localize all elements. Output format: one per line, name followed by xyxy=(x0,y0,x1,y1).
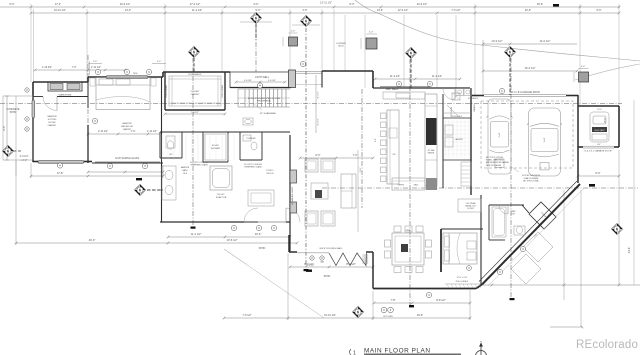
svg-text:9'-0": 9'-0" xyxy=(375,138,377,142)
svg-text:12'x8' SLIDING GLASS: 12'x8' SLIDING GLASS xyxy=(115,157,139,160)
svg-text:LIGHT WELL: LIGHT WELL xyxy=(255,76,270,79)
svg-text:WC: WC xyxy=(169,154,173,156)
svg-text:ROD&SHELF: ROD&SHELF xyxy=(468,98,478,100)
svg-text:1'-10 3/4": 1'-10 3/4" xyxy=(42,66,52,69)
svg-text:WOOD: WOOD xyxy=(266,173,273,175)
svg-text:TILE: TILE xyxy=(183,173,188,175)
svg-text:DINE: DINE xyxy=(406,230,411,232)
svg-text:60"x36": 60"x36" xyxy=(212,145,219,147)
svg-text:SAUNA +6'x8': SAUNA +6'x8' xyxy=(465,205,476,208)
svg-text:18' GANGED GLASS: 18' GANGED GLASS xyxy=(291,186,294,205)
svg-text:7'-8": 7'-8" xyxy=(390,298,395,302)
svg-text:5'x8' STEAM: 5'x8' STEAM xyxy=(466,202,476,205)
svg-text:29'-8": 29'-8" xyxy=(417,314,423,317)
svg-text:11'-0 1/2": 11'-0 1/2" xyxy=(540,39,551,43)
svg-text:8'-6": 8'-6" xyxy=(3,125,6,130)
svg-text:17'-4": 17'-4" xyxy=(55,3,61,6)
svg-text:SHOWER: SHOWER xyxy=(211,148,221,150)
svg-text:16'-0 1/2": 16'-0 1/2" xyxy=(525,66,536,70)
svg-text:ROD & SHELF: ROD & SHELF xyxy=(222,84,224,97)
svg-text:ROOM: ROOM xyxy=(49,122,56,124)
svg-text:PATIO: PATIO xyxy=(10,111,17,114)
svg-text:17'-8": 17'-8" xyxy=(57,171,64,175)
svg-text:2'-11 1/4": 2'-11 1/4" xyxy=(91,66,101,69)
svg-text:CLOSET: CLOSET xyxy=(467,208,474,210)
svg-text:7'-5 1/2": 7'-5 1/2" xyxy=(451,9,460,12)
svg-text:22'-6": 22'-6" xyxy=(525,9,531,12)
svg-text:TEMPERED GLASS: TEMPERED GLASS xyxy=(190,164,208,167)
svg-text:31'-10 1/2": 31'-10 1/2" xyxy=(324,314,336,317)
svg-text:4'-2 1/2": 4'-2 1/2" xyxy=(318,118,320,125)
svg-text:9'-6": 9'-6" xyxy=(597,9,602,12)
svg-text:10'-6": 10'-6" xyxy=(255,232,262,236)
svg-text:PER GENERAL: PER GENERAL xyxy=(257,99,272,102)
svg-text:SLAB ON GRADE: SLAB ON GRADE xyxy=(524,177,539,180)
svg-text:10'-10 1/2": 10'-10 1/2" xyxy=(54,9,66,12)
svg-text:9'x18': 9'x18' xyxy=(544,137,546,142)
svg-text:2'-0": 2'-0" xyxy=(369,32,374,34)
svg-text:2'-0": 2'-0" xyxy=(581,66,585,68)
svg-text:8'-0": 8'-0" xyxy=(316,154,321,157)
svg-text:MASTER: MASTER xyxy=(122,122,132,125)
svg-text:11'-1 1/2": 11'-1 1/2" xyxy=(191,232,202,236)
svg-text:14'-0": 14'-0" xyxy=(125,9,131,12)
svg-text:13'-5 1/2": 13'-5 1/2" xyxy=(227,238,238,242)
svg-text:2'-0": 2'-0" xyxy=(157,61,161,63)
svg-text:MASTER: MASTER xyxy=(181,166,190,169)
svg-text:STUDY: STUDY xyxy=(266,170,274,172)
svg-text:66"x32": 66"x32" xyxy=(217,194,224,196)
svg-text:2'-11 1/4": 2'-11 1/4" xyxy=(98,130,108,133)
svg-text:16'-0 x 8'-0 GARAGE DOOR: 16'-0 x 8'-0 GARAGE DOOR xyxy=(510,91,540,94)
svg-text:8'-6": 8'-6" xyxy=(10,3,15,6)
svg-text:12'-0 1/2": 12'-0 1/2" xyxy=(398,9,409,12)
svg-text:3'-0 1/4": 3'-0 1/4" xyxy=(20,155,29,158)
svg-text:8'-0": 8'-0" xyxy=(595,171,600,175)
svg-text:8'-0": 8'-0" xyxy=(603,117,607,122)
svg-text:16'-6 1/2": 16'-6 1/2" xyxy=(120,3,131,6)
svg-text:REcolorado: REcolorado xyxy=(576,339,638,351)
svg-text:ROD&SHELF: ROD&SHELF xyxy=(452,116,462,118)
svg-text:7'-8 1/2": 7'-8 1/2" xyxy=(191,112,199,114)
svg-text:2'-11 1/4": 2'-11 1/4" xyxy=(147,130,157,133)
svg-text:4'-6 3/4": 4'-6 3/4" xyxy=(268,80,276,82)
svg-text:PATIO: PATIO xyxy=(259,247,266,250)
svg-text:LAUNDRY: LAUNDRY xyxy=(455,138,464,141)
svg-text:22'x9': 22'x9' xyxy=(597,109,602,111)
svg-text:SIDE ONLY (ALSM): SIDE ONLY (ALSM) xyxy=(486,164,501,167)
svg-text:RE: STRUCTURAL: RE: STRUCTURAL xyxy=(523,180,539,183)
svg-text:1'-0": 1'-0" xyxy=(93,61,97,63)
svg-text:CARPET: CARPET xyxy=(123,128,133,131)
svg-text:AND REINFORCED GARAGE: AND REINFORCED GARAGE xyxy=(486,161,510,164)
svg-text:8'-8 1/2": 8'-8 1/2" xyxy=(436,298,446,302)
svg-text:REFRIG: REFRIG xyxy=(398,185,405,187)
svg-text:HOT LINES: HOT LINES xyxy=(383,316,393,318)
svg-text:ROD & SHELF: ROD & SHELF xyxy=(456,281,469,283)
svg-text:SLOPED CONCRETE: SLOPED CONCRETE xyxy=(522,175,541,177)
svg-text:10'-0 1/2": 10'-0 1/2" xyxy=(492,39,503,43)
svg-text:WDW: WDW xyxy=(133,73,138,75)
svg-text:RANGE: RANGE xyxy=(428,152,435,155)
svg-text:SITTING: SITTING xyxy=(48,119,57,121)
svg-text:21'-6": 21'-6" xyxy=(360,167,362,172)
svg-text:BEDROOM: BEDROOM xyxy=(121,126,132,128)
svg-text:7'-0": 7'-0" xyxy=(72,66,77,69)
svg-text:MUD ROOM: MUD ROOM xyxy=(451,106,453,117)
svg-text:22'-9" x 9'-8": 22'-9" x 9'-8" xyxy=(457,277,468,279)
svg-text:36'-6": 36'-6" xyxy=(537,3,543,6)
svg-text:4'-2 1/2": 4'-2 1/2" xyxy=(318,91,320,98)
svg-text:MONO-STRINGER STAIR SYSTEM: MONO-STRINGER STAIR SYSTEM xyxy=(248,97,281,100)
svg-text:POWDER: POWDER xyxy=(247,138,257,140)
svg-text:9'x18': 9'x18' xyxy=(499,132,501,137)
svg-text:24'-8": 24'-8" xyxy=(627,247,631,254)
svg-text:9'-6": 9'-6" xyxy=(256,9,261,12)
svg-text:42" GUARDRAIL: 42" GUARDRAIL xyxy=(260,112,277,115)
svg-text:CARPET: CARPET xyxy=(191,93,201,96)
svg-text:PATIO: PATIO xyxy=(324,275,331,278)
svg-text:DW: DW xyxy=(393,154,396,156)
svg-text:7'-8 1/2": 7'-8 1/2" xyxy=(242,314,251,317)
svg-text:GARAGE: GARAGE xyxy=(473,103,476,111)
svg-text:GOLF CART: GOLF CART xyxy=(594,129,605,132)
svg-text:17'-0 1/2": 17'-0 1/2" xyxy=(190,3,201,6)
svg-text:30" GAS: 30" GAS xyxy=(428,149,436,152)
svg-text:20'-6 1/2": 20'-6 1/2" xyxy=(417,3,428,6)
svg-text:MASTER: MASTER xyxy=(47,115,57,118)
svg-text:8'-0": 8'-0" xyxy=(597,144,601,146)
svg-text:7'-0": 7'-0" xyxy=(353,154,358,157)
svg-text:TEMPERED GLASS: TEMPERED GLASS xyxy=(244,166,262,169)
svg-text:ROD & SHELF: ROD & SHELF xyxy=(166,84,168,97)
svg-text:CONCRETE: CONCRETE xyxy=(7,109,20,111)
svg-text:13'-11 1/2": 13'-11 1/2" xyxy=(320,2,332,5)
svg-text:CLOSET: CLOSET xyxy=(191,91,200,93)
svg-text:13'-6": 13'-6" xyxy=(377,9,383,12)
svg-text:11'-2 1/4": 11'-2 1/4" xyxy=(432,75,442,78)
svg-text:SOAK TUB: SOAK TUB xyxy=(216,196,227,199)
svg-text:CARPET: CARPET xyxy=(48,124,58,127)
svg-text:8'-0": 8'-0" xyxy=(350,3,355,6)
svg-text:3'-6": 3'-6" xyxy=(303,9,308,12)
svg-text:1: 1 xyxy=(353,351,356,355)
svg-text:x 4'-2": x 4'-2" xyxy=(21,159,28,162)
svg-text:8'-0 X 8'-0 GARAGE DOOR: 8'-0 X 8'-0 GARAGE DOOR xyxy=(585,150,612,153)
svg-text:BOARD, TAPED, MUD: BOARD, TAPED, MUD xyxy=(486,159,504,162)
svg-text:ROD&SHELF: ROD&SHELF xyxy=(189,74,202,76)
svg-text:4'-6 3/4": 4'-6 3/4" xyxy=(244,80,252,82)
svg-text:40'-0": 40'-0" xyxy=(89,238,96,242)
svg-text:NW 8' FOLDING WALL: NW 8' FOLDING WALL xyxy=(320,247,343,250)
svg-text:MAIN FLOOR PLAN: MAIN FLOOR PLAN xyxy=(364,348,431,355)
svg-text:DECK: DECK xyxy=(338,46,344,48)
svg-text:14'-0 1/2": 14'-0 1/2" xyxy=(306,265,315,267)
svg-text:BATH: BATH xyxy=(182,169,188,172)
svg-text:9'-6": 9'-6" xyxy=(254,3,259,6)
svg-text:11'-2 1/4": 11'-2 1/4" xyxy=(390,75,400,78)
svg-text:2'-0": 2'-0" xyxy=(291,31,296,33)
svg-text:11'-2 1/2": 11'-2 1/2" xyxy=(192,9,202,12)
